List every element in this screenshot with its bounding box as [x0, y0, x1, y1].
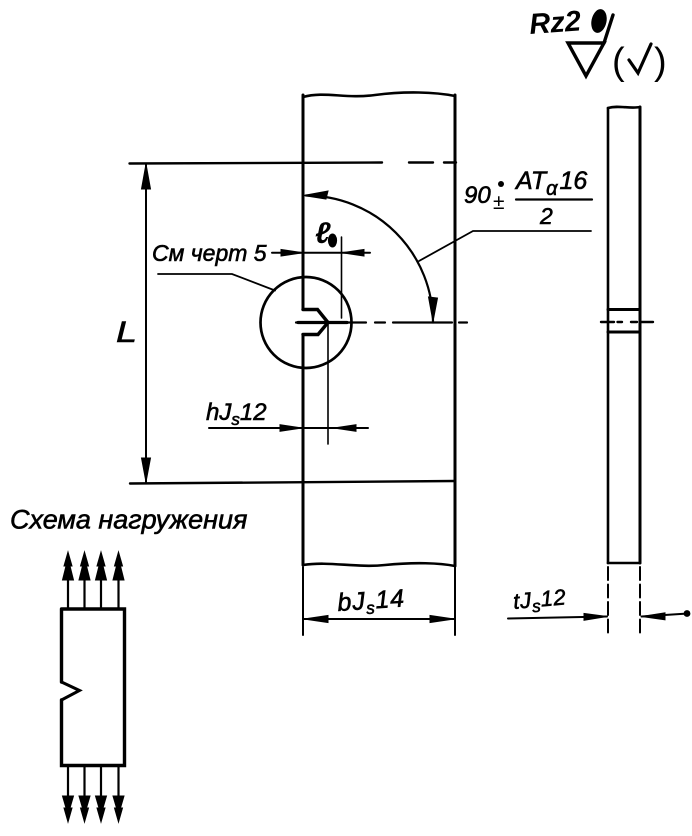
svg-text:ℓ: ℓ — [315, 217, 331, 250]
notch slot lower face — [303, 323, 328, 335]
leader line for angle label — [419, 231, 591, 261]
dimension t end dot — [684, 610, 691, 617]
angle arc bottom arrowhead — [429, 297, 438, 322]
angle arc left arrowhead — [304, 191, 329, 199]
dimension L bottom arrowhead — [142, 458, 151, 482]
loading arrow down head 3 — [96, 796, 107, 822]
dimension l0 left arrowhead — [281, 249, 303, 256]
dimension b line — [303, 618, 455, 620]
dimension b right arrowhead — [430, 615, 454, 622]
svg-text:ATα16: ATα16 — [514, 167, 587, 200]
svg-text:hJs12: hJs12 — [206, 399, 267, 429]
specimen front view top break (wavy) — [303, 92, 455, 97]
svg-text:±: ± — [493, 191, 505, 214]
dimension b left arrowhead — [304, 615, 328, 622]
loading arrow up head 3 — [96, 552, 107, 580]
svg-text:L: L — [116, 316, 137, 349]
dimension L line — [145, 164, 147, 482]
side view dashed extension right — [639, 567, 641, 633]
svg-text:90: 90 — [464, 182, 491, 209]
side view center line — [601, 321, 653, 323]
svg-text:Схема нагружения: Схема нагружения — [10, 505, 247, 535]
dimension h line — [209, 427, 368, 429]
loading arrow down head 4 — [113, 796, 124, 822]
loading arrows down (shafts) — [68, 766, 119, 797]
specimen front view right edge — [454, 95, 457, 566]
lower gauge reference line — [130, 481, 455, 484]
loading arrows up (shafts) — [68, 578, 119, 608]
dimension L top arrowhead — [142, 164, 151, 189]
notch slot upper face — [303, 310, 328, 323]
horizontal center line through notch (dash-dot) — [296, 321, 467, 323]
loading scheme notch — [62, 682, 80, 700]
extension line below right edge for b — [454, 567, 456, 635]
roughness (v) mark — [612, 41, 667, 83]
dimension l0 right arrowhead — [342, 249, 364, 256]
roughness triangle symbol — [568, 15, 613, 76]
extension line for l0 (notch tip) — [341, 237, 343, 318]
side view right edge — [639, 107, 642, 563]
dimension t right line — [642, 614, 689, 617]
svg-text:2: 2 — [539, 203, 553, 229]
upper gauge reference line — [130, 163, 457, 164]
dimension t left arrowhead — [584, 613, 607, 620]
leader line to detail circle — [158, 274, 275, 291]
loading arrow up head 4 — [113, 552, 124, 580]
side view top edge — [608, 107, 640, 108]
svg-text:См черт 5: См черт 5 — [152, 240, 267, 266]
dimension l0 line — [272, 252, 370, 254]
loading arrow down head 1 — [63, 796, 74, 822]
side view notch band upper line — [608, 308, 640, 311]
detail circle (Sm chert 5) — [261, 277, 352, 368]
dimension h left arrowhead — [280, 425, 302, 432]
svg-text:): ) — [654, 41, 667, 83]
side view left edge — [607, 108, 610, 563]
dimension h right arrowhead — [334, 425, 356, 432]
side view dashed extension left — [607, 567, 609, 633]
svg-text:(: ( — [612, 41, 625, 83]
loading arrow down head 2 — [79, 796, 90, 822]
specimen front view left edge lower — [302, 335, 305, 565]
roughness mark Rz20 text — [528, 5, 609, 41]
svg-text:bJs14: bJs14 — [336, 584, 406, 620]
svg-text:tJs12: tJs12 — [512, 584, 567, 618]
side view notch band lower line — [608, 331, 640, 334]
extension line for h (below notch tip) — [327, 324, 329, 444]
dimension t left line — [508, 617, 607, 619]
svg-text:Rz2: Rz2 — [528, 5, 582, 41]
loading scheme specimen rectangle — [62, 609, 125, 766]
specimen front view left edge upper — [302, 95, 305, 309]
dimension t right arrowhead — [642, 613, 666, 620]
loading arrow up head 1 — [63, 552, 74, 580]
specimen front view bottom break (wavy) — [303, 563, 455, 566]
angle arc 90 deg — [306, 196, 433, 323]
extension line below left edge for b — [302, 567, 304, 635]
side view bottom end line — [608, 562, 640, 565]
loading arrow up head 2 — [79, 552, 90, 580]
